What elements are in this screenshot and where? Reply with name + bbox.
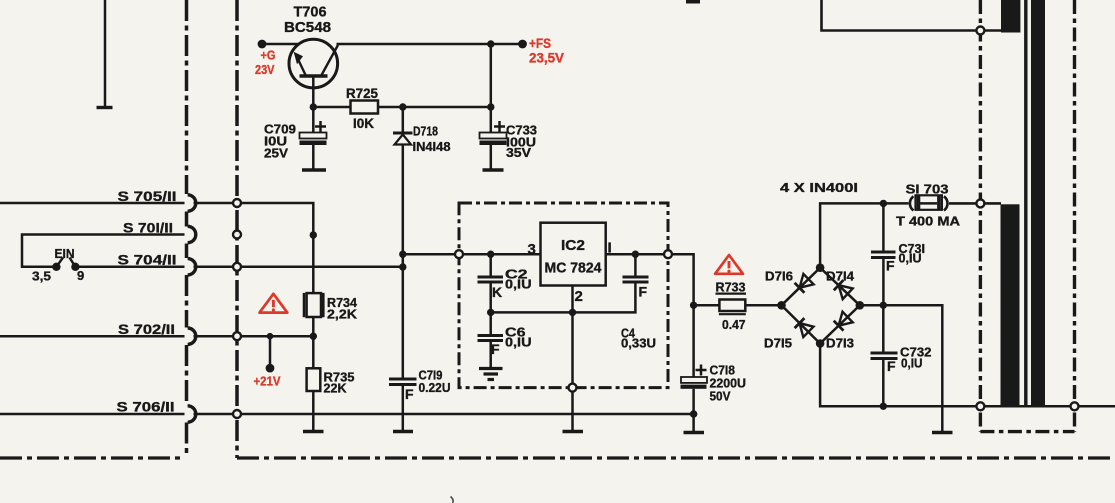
wire S705 row right [194, 203, 314, 235]
top-left component lead [104, 0, 107, 106]
border circle IC2 in [455, 250, 463, 258]
wire R735 to chassis [312, 391, 315, 432]
svg-text:0,33U: 0,33U [621, 336, 656, 351]
svg-text:3: 3 [528, 241, 536, 258]
junction mid row / C732 [880, 302, 887, 309]
junction C4 top [632, 251, 639, 258]
IC2 enclosure dash-dot box [459, 203, 668, 388]
plus sign C718 [696, 369, 707, 372]
junction R733/C718 [690, 302, 697, 309]
wire bridge right / mid row [860, 305, 943, 431]
border circle transformer top [976, 27, 984, 35]
wire fuse to transformer [949, 202, 1001, 205]
stub mark at top edge [686, 0, 700, 4]
transistor emitter arrow [294, 52, 303, 64]
chassis T-bar C719 [393, 430, 413, 433]
junction bridge right [856, 301, 865, 310]
wire IC2 output row (pin 3) [403, 253, 541, 256]
border circle transformer bottom left [976, 402, 984, 410]
connector S701 [188, 226, 196, 242]
capacitor C733 (electrolytic) [490, 107, 493, 133]
plus sign C709 [315, 125, 326, 128]
ground symbol [479, 369, 503, 380]
svg-text:I0K: I0K [353, 115, 374, 131]
svg-text:0.47: 0.47 [722, 317, 746, 332]
transformer winding bar (top) [1001, 0, 1020, 33]
svg-text:23V: 23V [255, 62, 275, 77]
wire S704 row right [194, 266, 403, 269]
svg-text:22K: 22K [324, 380, 348, 395]
wire S706 row [0, 413, 185, 416]
svg-text:+G: +G [261, 48, 276, 63]
connector S702 [188, 328, 196, 344]
border circle S705 [233, 199, 241, 207]
transformer enclosure dash-dot left [979, 0, 982, 432]
IC2 box [541, 223, 606, 286]
svg-text:D7I4: D7I4 [826, 269, 854, 283]
transistor T706 [289, 39, 338, 88]
wire pin 2 down [571, 286, 574, 432]
border circle IC2 pin2 [569, 384, 577, 392]
svg-text:IC2: IC2 [561, 237, 585, 254]
svg-text:D7I6: D7I6 [765, 269, 793, 283]
svg-text:23,5V: 23,5V [529, 50, 565, 66]
wire base of T706 [312, 76, 315, 107]
junction base/R725/C709 [310, 103, 317, 110]
capacitor C709 (electrolytic) [312, 107, 315, 133]
svg-text:D7I5: D7I5 [764, 336, 792, 350]
svg-text:0,IU: 0,IU [505, 277, 532, 292]
junction bridge top [816, 263, 825, 272]
svg-text:S 705/II: S 705/II [118, 188, 177, 204]
svg-text:9: 9 [77, 268, 84, 283]
wire S704 row [79, 266, 185, 269]
transformer enclosure dash-dot right [1073, 0, 1076, 432]
wire R734-R735 chain [312, 235, 315, 293]
svg-text:EIN: EIN [55, 246, 75, 261]
capacitor C2 [489, 254, 492, 276]
junction S702/R734/R735 [310, 333, 317, 340]
svg-text:BC548: BC548 [284, 19, 331, 36]
wire S702 row [0, 335, 185, 338]
diode D716 [795, 274, 814, 293]
junction C732 bottom [880, 403, 887, 410]
warning triangle (right) [715, 255, 743, 274]
svg-text:0,IU: 0,IU [901, 355, 923, 370]
svg-text:F: F [405, 386, 414, 402]
connector S705 [188, 195, 196, 211]
resistor R734 (safety) [304, 293, 323, 317]
capacitor C732 [882, 305, 885, 351]
svg-text:4 X IN400I: 4 X IN400I [780, 180, 858, 195]
svg-text:25V: 25V [264, 146, 288, 161]
switch EIN contact 3,5 [52, 263, 60, 271]
svg-text:S 70I/II: S 70I/II [123, 220, 173, 236]
connector S706 [188, 406, 196, 422]
capacitor C6 [489, 312, 492, 334]
wire S705 row left [0, 202, 185, 205]
junction C2 bottom [487, 309, 494, 316]
warning triangle (left) [260, 294, 288, 313]
plus sign C733 [494, 125, 505, 128]
wire C2/pin2/C4 bottom row [491, 284, 636, 313]
chassis T-bar pin2 [563, 430, 584, 433]
svg-text:D718: D718 [413, 125, 438, 139]
junction +FS vertical [487, 40, 494, 47]
svg-text:3,5: 3,5 [32, 269, 51, 284]
svg-text:R725: R725 [346, 85, 378, 101]
wire S701 switch loop [22, 235, 185, 267]
wire D718 down to C719 [402, 254, 405, 377]
wire R725 row [313, 106, 350, 109]
svg-text:S 706/II: S 706/II [117, 398, 175, 414]
svg-text:0,IU: 0,IU [505, 335, 532, 350]
chassis T-bar mid [932, 431, 953, 434]
svg-text:F: F [639, 284, 648, 300]
svg-text:0.22U: 0.22U [419, 380, 451, 395]
junction pin2 row [569, 309, 576, 316]
border circle S704 [233, 263, 241, 271]
underline R733 [716, 293, 747, 295]
border circle S706 [233, 410, 241, 418]
svg-text:SI 703: SI 703 [906, 181, 949, 196]
junction D718/IC2 input row [399, 251, 406, 258]
wire collector to +FS [337, 43, 523, 46]
svg-text:S 702/II: S 702/II [118, 321, 175, 337]
border circle IC2 out [664, 250, 672, 258]
wire +G to emitter [262, 43, 298, 46]
switch EIN lever marks [56, 258, 63, 267]
chassis T-bar C718 [684, 431, 705, 434]
capacitor C718 (electrolytic) [692, 305, 695, 377]
svg-text:2: 2 [575, 288, 583, 305]
junction C718/S706 [690, 410, 698, 418]
diode D714 [834, 280, 853, 299]
chassis T-bar R735 [303, 430, 324, 433]
bottom border dash-dot (right segment) [237, 456, 1115, 459]
transformer primary top wire [822, 0, 1002, 31]
wire S702 row right [194, 335, 314, 338]
top-left chassis T-bar [97, 106, 113, 109]
svg-text:2,2K: 2,2K [327, 306, 358, 321]
border circle S701 [233, 231, 241, 239]
junction D718/S704 [399, 263, 406, 270]
capacitor C731 [882, 203, 885, 250]
resistor R735 [307, 368, 321, 391]
junction C731 top [880, 200, 887, 207]
svg-text:K: K [492, 284, 502, 300]
border circle S702 [233, 332, 241, 340]
chassis T-bar C709 [302, 168, 326, 171]
capacitor C719 [389, 378, 417, 381]
stray mark bottom [451, 497, 454, 503]
border circle transformer fuse row [976, 199, 984, 207]
wire bridge bottom row [820, 344, 1115, 407]
node +21V terminal [266, 364, 275, 373]
junction R725/C733 [487, 103, 494, 110]
chassis T-bar C733 [483, 168, 504, 171]
resistor R725 [351, 101, 379, 114]
svg-text:T 400 MA: T 400 MA [896, 213, 961, 228]
wire S706 row right [194, 413, 694, 416]
junction S702/+21V [267, 333, 274, 340]
junction bridge bottom [816, 339, 825, 348]
switch EIN contact 9 [71, 263, 79, 271]
svg-text:D7I3: D7I3 [826, 336, 854, 350]
wire IC2 input row (pin 1) to R733 [606, 254, 694, 305]
transformer core thin line [1024, 0, 1027, 406]
connector boundary dashed line (x=186.5) [185, 0, 189, 456]
diode D713 [834, 312, 853, 331]
border circle transformer bottom right [1071, 402, 1079, 410]
bridge rectifier diamond [782, 268, 860, 344]
transformer core bar [1031, 0, 1045, 406]
connector S704 [188, 259, 196, 275]
underline below R733 box [719, 313, 746, 315]
wire bridge top to fuse row [819, 268, 821, 344]
bottom border dash-dot (left segment) [0, 456, 181, 459]
svg-text:+21V: +21V [254, 373, 281, 388]
svg-text:35V: 35V [506, 145, 531, 160]
svg-text:R733: R733 [716, 280, 746, 295]
junction C2 top [487, 251, 494, 258]
svg-text:F: F [491, 341, 500, 357]
transformer winding bar (main) [1001, 204, 1020, 406]
junction S701 [310, 231, 317, 238]
fuse SI 703 [910, 195, 948, 210]
svg-text:F: F [886, 258, 895, 274]
+21V tap wire [269, 336, 272, 368]
svg-text:S 704/II: S 704/II [118, 251, 177, 267]
svg-text:MC 7824: MC 7824 [545, 259, 603, 276]
module border dash-dot line (x=237) [235, 0, 239, 458]
capacitor C4 [634, 254, 637, 276]
svg-text:0,IU: 0,IU [899, 250, 922, 265]
resistor R733 [694, 304, 720, 307]
junction bridge left [777, 301, 786, 310]
transformer enclosure dash-dot bottom [980, 430, 1074, 433]
svg-text:50V: 50V [710, 388, 731, 403]
svg-text:IN4I48: IN4I48 [413, 140, 451, 154]
wire +FS down to C733 [490, 44, 493, 107]
node +G terminal [258, 40, 267, 49]
diode D715 [795, 318, 814, 337]
svg-text:F: F [887, 358, 896, 374]
diode D718 [402, 107, 405, 135]
junction R725/D718 [399, 103, 406, 110]
node +FS terminal [518, 40, 527, 49]
